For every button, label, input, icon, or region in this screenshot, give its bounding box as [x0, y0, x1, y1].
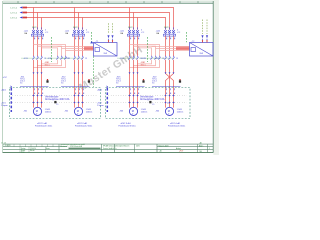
wire verticals group1 to motor	[34, 60, 42, 104]
title block	[3, 144, 213, 153]
wire entry tags	[130, 88, 175, 94]
svg-text:1.5kW: 1.5kW	[45, 109, 50, 111]
device box -T2	[190, 41, 214, 56]
svg-text:1440min: 1440min	[141, 112, 148, 114]
title block texts	[1, 142, 210, 154]
svg-text:1.5: 1.5	[167, 103, 169, 105]
motor -M4	[156, 103, 184, 115]
svg-text:1: 1	[209, 148, 210, 150]
contactor -K22	[154, 56, 178, 60]
svg-text:6: 6	[45, 30, 46, 32]
svg-text:-XD2: -XD2	[97, 103, 103, 105]
wire entry tags	[34, 88, 84, 94]
cable -W12	[61, 72, 90, 86]
circuit breaker -Q22	[156, 27, 181, 39]
contactor -K21	[118, 56, 142, 60]
box outside labels	[97, 88, 104, 107]
cable loop lower right	[130, 60, 160, 68]
terminal box label	[140, 96, 165, 104]
svg-text:3RV2: 3RV2	[128, 27, 132, 29]
svg-text:6: 6	[141, 30, 142, 32]
wire verticals group3 to motor	[130, 60, 138, 104]
arrow device T1	[90, 41, 93, 43]
terminal box +AD1	[10, 88, 101, 119]
circuit breaker -Q21	[120, 27, 145, 39]
box outside labels	[1, 88, 8, 107]
svg-text:6: 6	[177, 30, 178, 32]
function text	[119, 122, 136, 128]
PE stub T1	[91, 32, 93, 42]
wire phase verticals	[130, 37, 138, 57]
wire phase verticals	[166, 37, 174, 57]
svg-text:1.5kW: 1.5kW	[141, 109, 146, 111]
PE stub T2	[186, 32, 188, 42]
svg-text:L3 / 1.1: L3 / 1.1	[11, 18, 19, 20]
svg-text:13: 13	[85, 58, 87, 60]
terminal box label	[45, 96, 70, 104]
contactor -K1B	[46, 56, 70, 60]
cable loop lower left	[34, 60, 66, 68]
svg-text:3~: 3~	[132, 113, 134, 115]
svg-text:1.5: 1.5	[152, 104, 154, 106]
contactor -K12	[63, 56, 87, 60]
motor -M2	[65, 103, 93, 115]
net L2 rail	[11, 12, 170, 30]
reference text left	[3, 77, 7, 79]
svg-text:1.5: 1.5	[56, 104, 58, 106]
svg-text:-W11: -W11	[20, 77, 24, 79]
svg-text:2.5qmm: 2.5qmm	[97, 105, 104, 107]
device box -T1	[94, 41, 118, 56]
shield conductors -T2	[201, 20, 208, 43]
watermark	[77, 44, 145, 94]
circuit breaker -Q11	[24, 27, 49, 39]
svg-text:13: 13	[176, 58, 178, 60]
svg-text:3RV2: 3RV2	[164, 27, 168, 29]
terminal row X1	[109, 94, 188, 103]
svg-text:3RV2: 3RV2	[32, 27, 36, 29]
motor -M1	[24, 103, 52, 115]
terminal row X1	[13, 94, 98, 103]
cable feed to device T1	[58, 47, 94, 51]
svg-text:1440min: 1440min	[86, 112, 93, 114]
cable loop upper left	[34, 45, 66, 57]
function text	[35, 122, 52, 128]
svg-text:2: 2	[10, 86, 11, 88]
svg-text:-T1: -T1	[96, 41, 99, 43]
svg-text:-W22: -W22	[152, 77, 156, 79]
svg-text:2: 2	[106, 86, 107, 88]
svg-text:L2 / 1.1: L2 / 1.1	[11, 13, 19, 15]
contactor -K11	[22, 56, 46, 60]
PE clamp	[46, 79, 48, 83]
svg-text:6: 6	[86, 30, 87, 32]
svg-text:1440min: 1440min	[45, 112, 52, 114]
wire drops group 1	[34, 8, 42, 30]
wire drops group 3	[130, 8, 138, 30]
PE clamp	[179, 79, 181, 83]
drawing frame	[3, 0, 219, 155]
svg-text:-XD1: -XD1	[1, 103, 7, 105]
svg-text:-K2B: -K2B	[142, 58, 147, 60]
wire phase verticals	[34, 37, 42, 57]
circuit breaker -Q12	[65, 27, 90, 39]
motor -M3	[120, 103, 148, 115]
svg-text:-WB2: -WB2	[141, 62, 146, 64]
wire verticals group2 to motor	[75, 60, 83, 104]
PE clamp	[88, 79, 90, 83]
cable -W22	[152, 72, 181, 86]
svg-text:3RV2: 3RV2	[73, 27, 77, 29]
cable -W21	[116, 72, 145, 86]
svg-text:-K1B: -K1B	[48, 58, 53, 60]
contactor -K2B	[140, 56, 164, 60]
cable feed to device T2	[152, 47, 190, 51]
shield conductors -T1	[107, 23, 113, 42]
svg-text:2kW: 2kW	[200, 53, 204, 55]
cable W-B2 label	[141, 62, 146, 67]
svg-text:1.5kW: 1.5kW	[177, 109, 182, 111]
PE conductor right	[147, 37, 149, 62]
net L3 rail	[11, 17, 166, 30]
wire verticals group4 crossed to motor	[166, 60, 174, 104]
svg-text:-W21: -W21	[116, 77, 120, 79]
svg-text:2kW: 2kW	[104, 53, 108, 55]
terminal strip left	[106, 86, 107, 112]
svg-text:3~: 3~	[77, 113, 79, 115]
svg-text:-W12: -W12	[61, 77, 65, 79]
terminal strip left	[10, 86, 11, 112]
svg-text:3G1.5: 3G1.5	[141, 64, 146, 66]
cable loop upper right	[130, 45, 160, 57]
function text	[75, 122, 92, 128]
function text	[168, 122, 185, 128]
svg-text:1440min: 1440min	[177, 112, 184, 114]
cable W-B1 label	[45, 62, 50, 67]
svg-text:L1 / 1.1: L1 / 1.1	[11, 8, 19, 10]
svg-text:3G1.5: 3G1.5	[45, 64, 50, 66]
svg-text:2.5qmm: 2.5qmm	[1, 105, 8, 107]
terminal mark mid	[56, 103, 169, 106]
PE clamp	[142, 79, 144, 83]
svg-text:3~: 3~	[168, 113, 170, 115]
svg-text:1.5kW: 1.5kW	[86, 109, 91, 111]
terminal box +AD2	[106, 88, 191, 119]
cable -W11	[20, 72, 49, 86]
svg-text:=P07: =P07	[179, 150, 183, 152]
net L1 rail	[11, 7, 174, 30]
PE conductor left	[52, 37, 94, 87]
svg-text:=P07: =P07	[3, 77, 7, 79]
svg-text:-WB1: -WB1	[45, 62, 50, 64]
wire phase verticals	[75, 37, 83, 57]
wire drops group 2	[75, 8, 83, 30]
svg-text:-T2: -T2	[192, 41, 195, 43]
svg-text:3~: 3~	[36, 113, 38, 115]
